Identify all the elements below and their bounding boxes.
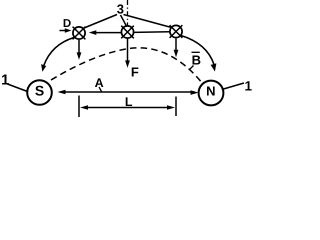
crossed circle X1 (left conductor section)	[73, 27, 86, 40]
centerline (dash-dot vertical axis)	[127, 0, 129, 26]
leader from B to dashed field line	[190, 66, 194, 70]
svg-text:1: 1	[245, 79, 253, 94]
down arrow below left crossed circle	[77, 40, 82, 60]
crossed circle X2 (middle conductor section)	[121, 26, 134, 39]
svg-text:3: 3	[117, 2, 124, 17]
down arrow below right crossed circle	[174, 39, 179, 58]
svg-text:F: F	[131, 65, 139, 80]
dashed field line arc from pole S to pole N	[51, 48, 203, 84]
leader from 3 to left crossed circle	[84, 15, 117, 29]
crossed circle X3 (right conductor section)	[170, 25, 183, 38]
dimension tick right (below right crossed circle)	[175, 97, 177, 117]
wire from middle crossed circle to left crossed circle with left arrow	[89, 30, 121, 35]
arrow D (direction arrow into left crossed circle)	[60, 28, 72, 32]
label B with overbar (field vector)	[192, 52, 201, 67]
svg-text:L: L	[125, 95, 133, 109]
leader from label 1 right to pole N	[224, 83, 245, 89]
leader from label 1 left to pole S	[8, 84, 28, 92]
leader from 3 to middle crossed circle	[121, 15, 127, 26]
conductor arc from right crossed circle down to pole N with arrowhead	[181, 36, 216, 72]
svg-text:S: S	[35, 83, 44, 99]
dimension tick left (below left crossed circle)	[78, 96, 80, 118]
leader from 3 to right crossed circle	[124, 15, 172, 28]
pole N circle	[199, 81, 224, 106]
pole S circle	[27, 80, 52, 105]
conductor arc from left crossed circle down to pole S with arrowhead	[41, 38, 74, 72]
leader from A to axis line	[99, 87, 102, 92]
force arrow F below middle crossed circle	[125, 39, 130, 68]
svg-text:N: N	[206, 84, 215, 99]
wire from middle crossed circle to right crossed circle	[134, 31, 170, 34]
svg-text:D: D	[63, 18, 71, 30]
dimension line L with outward arrowheads	[80, 105, 175, 110]
svg-text:1: 1	[1, 73, 9, 89]
axis line A between poles with arrowheads both ends	[58, 90, 199, 95]
